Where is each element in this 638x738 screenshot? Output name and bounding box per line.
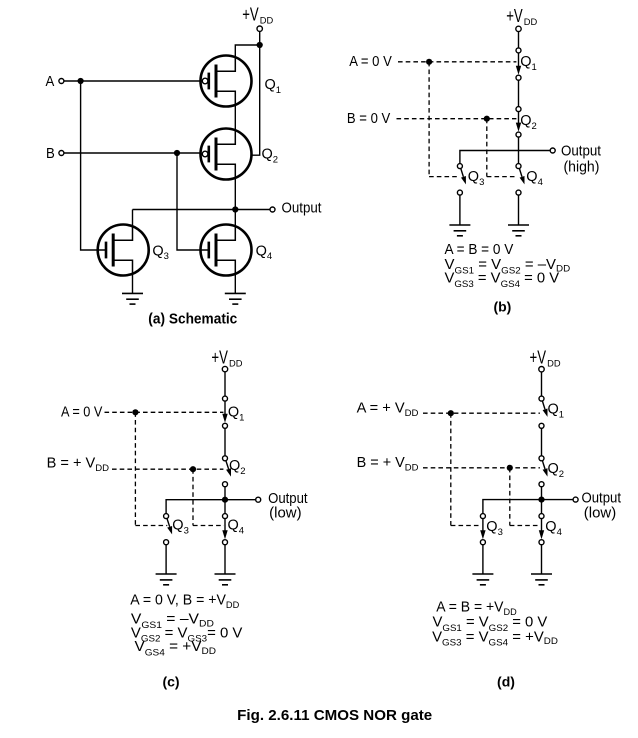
- svg-text:A = + VDD: A = + VDD: [357, 401, 419, 419]
- wire Q3 to ground: [459, 195, 461, 225]
- wire B to Q2 gate: [64, 152, 201, 154]
- ground below Q4 (panel d): [531, 574, 552, 585]
- wire A dashed to Q1 gate (panel c): [105, 411, 224, 413]
- switch Q1 (open, panel d): [539, 396, 548, 428]
- wire A branch to Q3 gate: [81, 81, 99, 250]
- wire A dashed branch down (panel c): [134, 412, 136, 525]
- wire A dashed to Q1 gate (panel d): [423, 412, 540, 414]
- svg-text:B: B: [46, 146, 55, 162]
- wire Q4 to ground (panel c): [224, 545, 226, 574]
- svg-text:Q1: Q1: [265, 77, 282, 96]
- svg-text:B = + VDD: B = + VDD: [47, 456, 110, 474]
- power terminal +VDD (panel d): [539, 367, 544, 372]
- svg-text:DD: DD: [229, 359, 243, 370]
- wire B dashed branch down (panel d): [509, 468, 511, 526]
- svg-text:(high): (high): [564, 160, 600, 176]
- wire VDD to switch Q1 (panel d): [541, 372, 543, 396]
- svg-text:A = B = 0 V: A = B = 0 V: [445, 242, 514, 258]
- wire output line (panel c): [166, 500, 256, 514]
- svg-text:Q4: Q4: [256, 243, 273, 262]
- switch Q4 (closed, panel d): [539, 514, 544, 545]
- svg-text:Q3: Q3: [468, 169, 485, 188]
- svg-text:Q1: Q1: [228, 405, 245, 424]
- svg-text:Output: Output: [582, 491, 622, 507]
- wire Q4 source to ground: [234, 273, 236, 293]
- node output junction (panel a): [232, 206, 238, 212]
- wire Q2 to Q4 through output node (panel d): [541, 487, 543, 514]
- svg-text:A: A: [46, 74, 55, 90]
- svg-text:Q3: Q3: [152, 243, 169, 262]
- svg-text:(d): (d): [497, 674, 515, 690]
- svg-text:Q4: Q4: [526, 169, 543, 188]
- ground below Q3: [122, 293, 143, 304]
- wire VDD to switch Q1 (panel c): [224, 372, 226, 396]
- svg-text:(a) Schematic: (a) Schematic: [148, 311, 237, 328]
- node A junction: [78, 78, 84, 84]
- input terminal A: [59, 79, 64, 84]
- wire Q2 to Q4 through output line: [518, 137, 520, 164]
- ground below Q3 (panel c): [156, 574, 177, 585]
- wire Q1 source to Q2 drain: [234, 104, 236, 131]
- wire B dashed branch to Q4 (panel c): [193, 525, 224, 527]
- node B junction: [174, 150, 180, 156]
- ground below Q4 (panel b): [508, 225, 529, 236]
- svg-text:Fig. 2.6.11 CMOS NOR gate: Fig. 2.6.11 CMOS NOR gate: [237, 707, 432, 724]
- switch Q1 (closed, panel c): [222, 396, 227, 428]
- wire Q3 to ground (panel c): [165, 545, 167, 574]
- node B junction (panel d): [507, 465, 513, 471]
- svg-text:Q2: Q2: [520, 113, 537, 132]
- svg-text:A = 0 V: A = 0 V: [349, 54, 392, 70]
- transistor Q3 (n-channel MOSFET): [97, 225, 148, 276]
- wire Q4 to ground: [518, 195, 520, 225]
- wire Q2 to Q4 through output node (panel c): [224, 487, 226, 514]
- svg-text:DD: DD: [260, 16, 274, 27]
- wire Q3 source to ground: [132, 273, 134, 293]
- wire Q1 to Q2 (panel c): [224, 428, 226, 456]
- svg-text:Q3: Q3: [486, 519, 503, 538]
- wire A to Q1 gate: [64, 80, 201, 82]
- svg-text:(c): (c): [162, 674, 179, 690]
- wire VDD rail to Q2 body: [252, 45, 260, 155]
- transistor Q4 (n-channel MOSFET): [200, 225, 251, 276]
- power terminal +VDD (panel a): [257, 26, 262, 31]
- wire B dashed to Q2 gate: [397, 118, 517, 120]
- node output junction (panel d): [538, 497, 544, 503]
- input terminal B: [59, 151, 64, 156]
- wire B dashed to Q2 gate (panel c): [112, 468, 223, 470]
- wire A dashed branch to Q3 (panel c): [135, 525, 167, 527]
- svg-text:Q1: Q1: [520, 54, 537, 73]
- svg-text:+V: +V: [506, 6, 523, 26]
- wire output node to Q4 drain: [234, 210, 236, 228]
- wire B dashed branch down (panel c): [192, 469, 194, 525]
- svg-text:DD: DD: [547, 359, 561, 370]
- svg-text:Q1: Q1: [548, 402, 565, 421]
- output terminal (panel a): [270, 207, 275, 212]
- output terminal (panel c): [256, 497, 261, 502]
- wire VDD terminal to node: [259, 31, 261, 45]
- svg-text:(b): (b): [493, 299, 511, 315]
- switch Q2 (closed): [516, 107, 521, 138]
- switch Q3 (open, panel c): [164, 514, 173, 545]
- node A junction (panel b): [426, 59, 432, 65]
- wire A dashed branch to Q3 (panel d): [451, 525, 482, 527]
- power terminal +VDD (panel c): [222, 366, 227, 371]
- svg-text:+V: +V: [211, 348, 228, 368]
- wire A dashed branch down: [428, 62, 430, 177]
- node B junction (panel b): [484, 116, 490, 122]
- ground below Q4 (panel c): [215, 574, 236, 585]
- wire output line (panel d): [483, 500, 573, 514]
- svg-text:Output: Output: [268, 491, 308, 507]
- svg-text:B = + VDD: B = + VDD: [357, 455, 419, 473]
- wire Q3 to ground (panel d): [482, 545, 484, 574]
- wire VDD node to Q1 drain: [235, 45, 259, 59]
- svg-text:DD: DD: [524, 17, 538, 28]
- wire A dashed branch down (panel d): [450, 413, 452, 525]
- wire B dashed branch down: [486, 119, 488, 177]
- ground below Q4: [225, 293, 246, 304]
- wire A dashed to Q1 gate: [398, 61, 516, 63]
- svg-text:B = 0 V: B = 0 V: [347, 111, 391, 127]
- switch Q3 (closed, panel d): [480, 514, 485, 545]
- wire B dashed branch to Q4 (panel d): [510, 525, 541, 527]
- wire A dashed branch to Q3: [429, 176, 457, 178]
- svg-text:(low): (low): [584, 506, 616, 522]
- output terminal (panel b): [550, 148, 555, 153]
- switch Q2 (open, panel c): [223, 456, 232, 487]
- transistor Q1 (p-channel MOSFET): [200, 56, 251, 107]
- svg-text:A = 0 V: A = 0 V: [61, 405, 103, 421]
- switch Q2 (open, panel d): [539, 456, 548, 487]
- svg-text:Q2: Q2: [229, 458, 246, 477]
- node VDD junction (panel a): [257, 42, 263, 48]
- switch Q3 (open): [457, 164, 466, 196]
- node B junction (panel c): [190, 466, 196, 472]
- wire VDD to switch Q1: [518, 32, 520, 48]
- svg-text:Q3: Q3: [172, 518, 189, 537]
- switch Q4 (closed, panel c): [222, 514, 227, 545]
- svg-text:Q4: Q4: [545, 519, 562, 538]
- ground below Q3 (panel b): [449, 225, 470, 236]
- node A junction (panel c): [132, 409, 138, 415]
- power terminal +VDD (panel b): [516, 26, 521, 31]
- node output junction (panel c): [222, 497, 228, 503]
- wire output line (panel b): [460, 151, 550, 164]
- switch Q1 (closed): [516, 48, 521, 80]
- wire Q3 drain to output line: [132, 210, 134, 228]
- svg-text:(low): (low): [269, 506, 301, 522]
- svg-text:Output: Output: [282, 201, 322, 217]
- svg-text:+V: +V: [530, 348, 547, 368]
- wire output line: [133, 209, 270, 211]
- svg-text:Q4: Q4: [228, 518, 245, 537]
- wire Q1 to Q2 (panel d): [541, 428, 543, 456]
- svg-text:Q2: Q2: [548, 461, 565, 480]
- wire Q1 to Q2: [518, 80, 520, 106]
- wire B branch to Q4 gate: [177, 153, 201, 250]
- svg-text:+V: +V: [242, 5, 259, 25]
- wire B dashed to Q2 gate (panel d): [423, 467, 540, 469]
- svg-text:Q2: Q2: [262, 147, 279, 166]
- svg-text:Output: Output: [561, 144, 601, 160]
- svg-text:A = 0 V, B = +VDD: A = 0 V, B = +VDD: [130, 593, 239, 611]
- ground below Q3 (panel d): [472, 574, 493, 585]
- node A junction (panel d): [448, 410, 454, 416]
- wire B dashed branch to Q4: [487, 176, 516, 178]
- transistor Q2 (p-channel MOSFET): [200, 129, 251, 180]
- wire Q2 source to output node: [234, 177, 236, 210]
- switch Q4 (open): [516, 164, 525, 196]
- output terminal (panel d): [573, 497, 578, 502]
- wire Q4 to ground (panel d): [541, 545, 543, 574]
